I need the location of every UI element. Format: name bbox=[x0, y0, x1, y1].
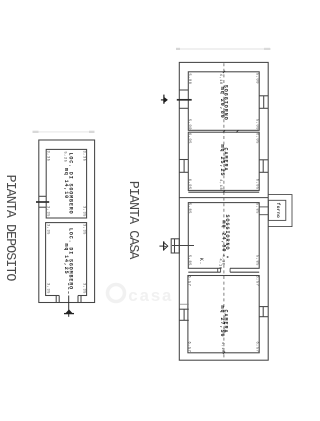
room4 dim TR bbox=[254, 275, 258, 286]
room 1 inner wall bbox=[188, 72, 259, 131]
room3 dim BR bbox=[254, 255, 258, 266]
unit A entrance arrow head bbox=[164, 97, 168, 104]
room3 porch box bbox=[171, 239, 179, 253]
deposito window glazing line bbox=[36, 201, 49, 203]
room2 right window divider bbox=[262, 160, 264, 173]
unit B entrance arrow head bbox=[164, 242, 168, 250]
svg-text:6,05: 6,05 bbox=[254, 133, 258, 144]
svg-text:4,18: 4,18 bbox=[218, 74, 222, 85]
svg-text:5,85: 5,85 bbox=[254, 203, 258, 214]
room3 dim TL bbox=[187, 203, 191, 214]
D2 dim text TR bbox=[81, 224, 85, 235]
svg-text:6,57: 6,57 bbox=[254, 275, 258, 286]
deposito entrance axis line bbox=[68, 296, 70, 317]
K door jamb 3 bbox=[229, 268, 231, 272]
forno bump outline bbox=[268, 195, 292, 227]
svg-text:3,35: 3,35 bbox=[45, 224, 49, 235]
room1 right window divider bbox=[263, 96, 265, 109]
room 2 inner wall bbox=[188, 132, 259, 190]
svg-text:forno: forno bbox=[275, 203, 281, 219]
tick centerline room4 bottom bbox=[223, 352, 225, 354]
room1 dim TR bbox=[254, 73, 258, 84]
svg-text:3,35: 3,35 bbox=[46, 150, 50, 161]
room1 dim top center bbox=[218, 74, 222, 85]
room3 porch divider bbox=[174, 239, 176, 253]
svg-text:5,85: 5,85 bbox=[254, 255, 258, 266]
room4 left window divider bbox=[183, 309, 185, 320]
deposito arrow crossbar bbox=[64, 313, 74, 315]
room4 dim TL bbox=[187, 275, 191, 286]
svg-text:mq 24,50: mq 24,50 bbox=[220, 220, 226, 252]
room4 right window jamb 2 bbox=[259, 316, 268, 318]
svg-text:3,35: 3,35 bbox=[46, 206, 50, 217]
tick on wall room1-2 right bbox=[236, 130, 238, 132]
tick centerline wall room1-2 bbox=[223, 130, 225, 132]
room1 right window jamb 2 bbox=[259, 107, 268, 109]
deposito window jamb 1 bbox=[39, 195, 46, 197]
room2 left window divider bbox=[183, 160, 185, 173]
deposito entrance arrow bbox=[65, 309, 73, 314]
room4 dim BR bbox=[254, 341, 258, 352]
svg-text:4,18: 4,18 bbox=[220, 342, 224, 353]
room2 left window jamb 1 bbox=[179, 159, 188, 161]
room4 right window jamb 1 bbox=[259, 306, 268, 308]
unit A arrow tail bbox=[161, 99, 164, 101]
D2 dim text BR bbox=[81, 283, 85, 294]
svg-text:6,05: 6,05 bbox=[187, 133, 191, 144]
svg-text:5,25: 5,25 bbox=[62, 151, 66, 162]
svg-text:PIANTA CASA: PIANTA CASA bbox=[125, 181, 140, 261]
svg-text:K.: K. bbox=[198, 258, 204, 265]
room4 left window jamb 2 bbox=[179, 319, 189, 321]
room1 left door line bbox=[177, 99, 192, 101]
faint line above deposito bbox=[34, 131, 94, 133]
tick centerline top room1 bbox=[223, 71, 225, 73]
deposito door jamb right bbox=[80, 296, 82, 303]
deposito door jamb left inner bbox=[58, 296, 60, 303]
K door opening white gap bbox=[221, 267, 230, 269]
wall line between room3 and room4 left segment bbox=[188, 271, 220, 273]
room1 dim TL bbox=[187, 73, 191, 84]
unit A entrance arrow base bar bbox=[163, 95, 165, 104]
watermark logo circle bbox=[108, 285, 125, 302]
svg-text:5,85: 5,85 bbox=[187, 203, 191, 214]
D1 dim text top center bbox=[62, 151, 66, 162]
room1 right window jamb 1 bbox=[259, 95, 268, 97]
svg-text:mq 25,25: mq 25,25 bbox=[219, 144, 225, 176]
room2 dim TL bbox=[187, 133, 191, 144]
svg-text:3,35: 3,35 bbox=[81, 283, 85, 294]
room2 right window jamb 2 bbox=[259, 171, 268, 173]
room4 dim top center bbox=[218, 258, 222, 269]
svg-text:mq 27,50: mq 27,50 bbox=[219, 305, 225, 337]
room3 dim TR bbox=[254, 203, 258, 214]
room1 left door jamb 2 bbox=[179, 107, 188, 109]
room 4 inner wall bbox=[188, 276, 259, 353]
svg-text:6,57: 6,57 bbox=[254, 341, 258, 352]
svg-text:3,35: 3,35 bbox=[81, 224, 85, 235]
svg-text:4,18: 4,18 bbox=[218, 179, 222, 190]
room2 dim BR bbox=[254, 179, 258, 190]
svg-text:3,35: 3,35 bbox=[45, 283, 49, 294]
svg-text:5,85: 5,85 bbox=[187, 255, 191, 266]
unit B arrow tail bbox=[159, 245, 164, 247]
svg-text:mq 20,80: mq 20,80 bbox=[219, 87, 225, 119]
room D1 inner wall bbox=[46, 149, 86, 218]
room4 dim BL bbox=[187, 341, 191, 352]
deposito door jamb right inner bbox=[77, 296, 79, 303]
room4 right window divider bbox=[262, 307, 264, 317]
deposito outer wall bbox=[39, 140, 95, 303]
D1 dim text BR bbox=[82, 206, 86, 217]
svg-text:5,00: 5,00 bbox=[187, 119, 191, 130]
room3 dim BL bbox=[187, 255, 191, 266]
deposito door jamb left bbox=[55, 296, 57, 303]
deposito door opening (white gap) bbox=[59, 295, 78, 297]
deposito entrance axis dashed bbox=[68, 283, 70, 296]
room4 dim bottom center bbox=[220, 342, 224, 353]
unit A bottom wall line bbox=[188, 191, 259, 193]
svg-text:mq 14,10: mq 14,10 bbox=[63, 168, 69, 199]
casa outer wall bbox=[179, 62, 268, 360]
room4 left window extra jamb bbox=[179, 303, 189, 305]
room1 left door jamb 1 bbox=[179, 89, 188, 91]
svg-text:5,00: 5,00 bbox=[254, 73, 258, 84]
room 3 inner wall bbox=[188, 203, 259, 269]
room2 dim BL bbox=[187, 179, 191, 190]
room3 dim bottom center bbox=[221, 254, 225, 265]
D2 dim text BL bbox=[45, 283, 49, 294]
unit B entrance arrow base bar bbox=[163, 241, 165, 250]
forno label bbox=[275, 203, 281, 219]
svg-text:6,05: 6,05 bbox=[187, 179, 191, 190]
room2 right window jamb 1 bbox=[259, 159, 268, 161]
D1 dim text TL bbox=[46, 150, 50, 161]
unit B arrow head inner stroke bbox=[164, 245, 166, 248]
svg-text:3,35: 3,35 bbox=[82, 150, 86, 161]
faint dotted line top right bbox=[177, 48, 271, 50]
svg-text:PIANTA DEPOSITO: PIANTA DEPOSITO bbox=[2, 175, 17, 282]
tick centerline wall unitA bottom bbox=[223, 190, 225, 192]
svg-text:4,18: 4,18 bbox=[218, 258, 222, 269]
deposito window jamb 2 bbox=[39, 206, 46, 208]
D1 dim text BL bbox=[46, 206, 50, 217]
svg-text:5,00: 5,00 bbox=[187, 73, 191, 84]
svg-text:5,00: 5,00 bbox=[254, 119, 258, 130]
room4 left window jamb 1 bbox=[179, 308, 189, 310]
D1 dim text TR bbox=[82, 150, 86, 161]
room2 dim bottom center bbox=[218, 179, 222, 190]
svg-text:3,35: 3,35 bbox=[82, 206, 86, 217]
room2 left window jamb 2 bbox=[179, 171, 188, 173]
wall line between room3 and room4 right segment bbox=[230, 271, 259, 273]
svg-text:6,05: 6,05 bbox=[254, 179, 258, 190]
forno inner box bbox=[268, 200, 285, 220]
casa dashed centerline bbox=[223, 63, 225, 359]
forno connection line 1 bbox=[259, 206, 268, 208]
room2 dim TR bbox=[254, 133, 258, 144]
unit B top wall line bbox=[179, 197, 268, 199]
room1 dim BR bbox=[254, 119, 258, 130]
tick room3 bottom dim bbox=[227, 256, 229, 258]
K door jamb 2 bbox=[220, 268, 222, 272]
room D2 inner wall bbox=[46, 223, 87, 296]
forno connection line 2 bbox=[259, 214, 268, 216]
D2 dim text TL bbox=[45, 224, 49, 235]
svg-text:mq 14,25: mq 14,25 bbox=[63, 243, 69, 274]
svg-text:6,57: 6,57 bbox=[187, 275, 191, 286]
svg-text:casa: casa bbox=[128, 288, 173, 307]
svg-text:6,57: 6,57 bbox=[187, 341, 191, 352]
room1 dim BL bbox=[187, 119, 191, 130]
K door jamb 1 bbox=[217, 268, 219, 272]
room3 door line bbox=[172, 245, 194, 247]
